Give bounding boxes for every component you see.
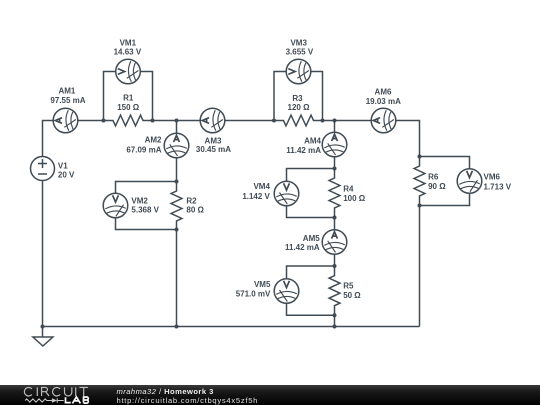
svg-text:AM2: AM2 <box>145 136 162 145</box>
ground <box>33 327 53 347</box>
footer text line 2 <box>117 397 259 405</box>
wire VM1 loop left leg <box>104 72 116 121</box>
node G junction dot <box>333 119 337 123</box>
wire bottom rail <box>43 326 420 328</box>
wire AM5 to node J <box>334 254 336 266</box>
svg-text:AM6: AM6 <box>375 88 392 97</box>
wire R2 bottom to bottom rail <box>176 230 178 327</box>
voltmeter VM6 <box>457 169 482 194</box>
svg-text:AM3: AM3 <box>205 136 222 145</box>
svg-text:VM4: VM4 <box>253 182 270 191</box>
wire node B to AM3 <box>177 120 201 122</box>
wire node B down to AM2 <box>176 121 178 134</box>
svg-text:19.03 mA: 19.03 mA <box>366 97 401 106</box>
voltmeter VM5 <box>274 279 299 304</box>
wire VM4 loop top-left <box>287 169 335 182</box>
svg-text:20 V: 20 V <box>58 171 75 180</box>
svg-text:R5: R5 <box>343 281 354 290</box>
wire V1 bottom to bottom rail <box>42 181 44 327</box>
svg-text:1.142 V: 1.142 V <box>242 192 270 201</box>
node bottom-R5 junction dot <box>333 325 337 329</box>
node B junction dot <box>175 119 179 123</box>
wire VM3 loop left leg <box>274 72 286 121</box>
wire VM2 loop bottom <box>116 218 177 230</box>
svg-text:AM1: AM1 <box>58 87 75 96</box>
wire node K to bottom rail <box>334 315 336 326</box>
wire node G to AM6 <box>335 120 372 122</box>
ammeter AM5 <box>322 230 347 255</box>
resistor R2 80 ohm <box>171 182 182 231</box>
node R1-right junction dot <box>151 119 155 123</box>
node A junction dot <box>102 119 106 123</box>
svg-text:AM4: AM4 <box>304 136 321 145</box>
wire AM6 to right rail corner <box>396 121 420 157</box>
wire VM6 loop bottom <box>420 193 470 205</box>
node I junction dot <box>333 216 337 220</box>
svg-text:VM1: VM1 <box>120 39 137 48</box>
svg-text:30.45 mA: 30.45 mA <box>196 145 231 154</box>
voltmeter VM3 <box>286 59 311 84</box>
wire AM1 to node A <box>78 120 104 122</box>
node R6-top junction dot <box>418 155 422 159</box>
svg-text:97.55 mA: 97.55 mA <box>50 96 85 105</box>
node bottom-R2 junction dot <box>175 325 179 329</box>
svg-text:150 Ω: 150 Ω <box>117 103 140 112</box>
voltmeter VM1 <box>116 59 141 84</box>
svg-text:VM6: VM6 <box>484 173 501 182</box>
footer bar <box>0 385 540 405</box>
wire node I down to AM5 <box>334 218 336 230</box>
svg-text:AM5: AM5 <box>303 234 320 243</box>
ammeter AM6 <box>371 108 396 133</box>
svg-text:VM5: VM5 <box>254 280 271 289</box>
wire AM3 to node E <box>225 120 274 122</box>
node H junction dot <box>333 167 337 171</box>
footer text line 1 <box>117 388 214 396</box>
wire VM6 loop top-right <box>420 157 470 169</box>
ammeter AM2 <box>164 133 189 158</box>
svg-text:11.42 mA: 11.42 mA <box>286 146 321 155</box>
resistor R6 90 ohm <box>414 157 425 206</box>
svg-text:V1: V1 <box>58 161 68 170</box>
node E junction dot <box>272 119 276 123</box>
node R6-bottom junction dot <box>418 204 422 208</box>
svg-text:1.713 V: 1.713 V <box>484 183 512 192</box>
node D junction dot <box>175 228 179 232</box>
ammeter AM3 <box>200 108 225 133</box>
voltmeter VM2 <box>103 193 128 218</box>
voltage source V1 <box>31 157 55 181</box>
svg-text:11.42 mA: 11.42 mA <box>285 243 320 252</box>
wire top-left from V1 corner to AM1 <box>43 121 54 157</box>
wire VM5 loop bottom <box>287 303 335 315</box>
node K junction dot <box>333 313 337 317</box>
svg-text:R6: R6 <box>428 173 439 182</box>
svg-text:R3: R3 <box>292 94 303 103</box>
wire node F to node G <box>323 120 335 122</box>
wire VM2 loop left <box>116 182 177 194</box>
node ground junction dot <box>41 325 45 329</box>
resistor R1 150 ohm <box>104 115 153 126</box>
wire VM1 loop right leg <box>140 72 152 121</box>
resistor R5 50 ohm <box>329 266 340 315</box>
voltmeter VM4 <box>274 181 299 206</box>
ammeter AM4 <box>322 132 347 157</box>
wire AM4 to node H <box>334 157 336 169</box>
svg-text:R1: R1 <box>123 94 134 103</box>
wire right rail down <box>419 206 421 327</box>
resistor R4 100 ohm <box>329 169 340 218</box>
resistor R3 120 ohm <box>274 115 323 126</box>
svg-text:R2: R2 <box>186 197 197 206</box>
svg-text:R4: R4 <box>343 185 354 194</box>
wire VM5 loop top-left <box>287 266 335 279</box>
svg-text:3.655 V: 3.655 V <box>286 48 314 57</box>
wire VM4 loop bottom <box>287 206 335 218</box>
svg-text:VM2: VM2 <box>131 197 148 206</box>
node F junction dot <box>321 119 325 123</box>
wire VM3 loop right leg <box>311 72 323 121</box>
svg-text:80 Ω: 80 Ω <box>186 206 204 215</box>
node J junction dot <box>333 264 337 268</box>
wire node R1-right to node B <box>153 120 177 122</box>
svg-text:67.09 mA: 67.09 mA <box>126 145 161 154</box>
svg-text:120 Ω: 120 Ω <box>288 103 311 112</box>
svg-text:90 Ω: 90 Ω <box>428 182 446 191</box>
node C junction dot <box>175 180 179 184</box>
wire AM2 down to node C <box>176 158 178 182</box>
svg-text:14.63 V: 14.63 V <box>114 47 142 56</box>
CircuitLab logo <box>23 385 95 405</box>
svg-text:5.368 V: 5.368 V <box>131 206 159 215</box>
svg-text:571.0 mV: 571.0 mV <box>236 290 271 299</box>
svg-text:50 Ω: 50 Ω <box>343 291 361 300</box>
wire node G down to AM4 <box>334 121 336 133</box>
svg-text:100 Ω: 100 Ω <box>343 194 366 203</box>
ammeter AM1 <box>53 108 78 133</box>
svg-text:VM3: VM3 <box>290 39 307 48</box>
